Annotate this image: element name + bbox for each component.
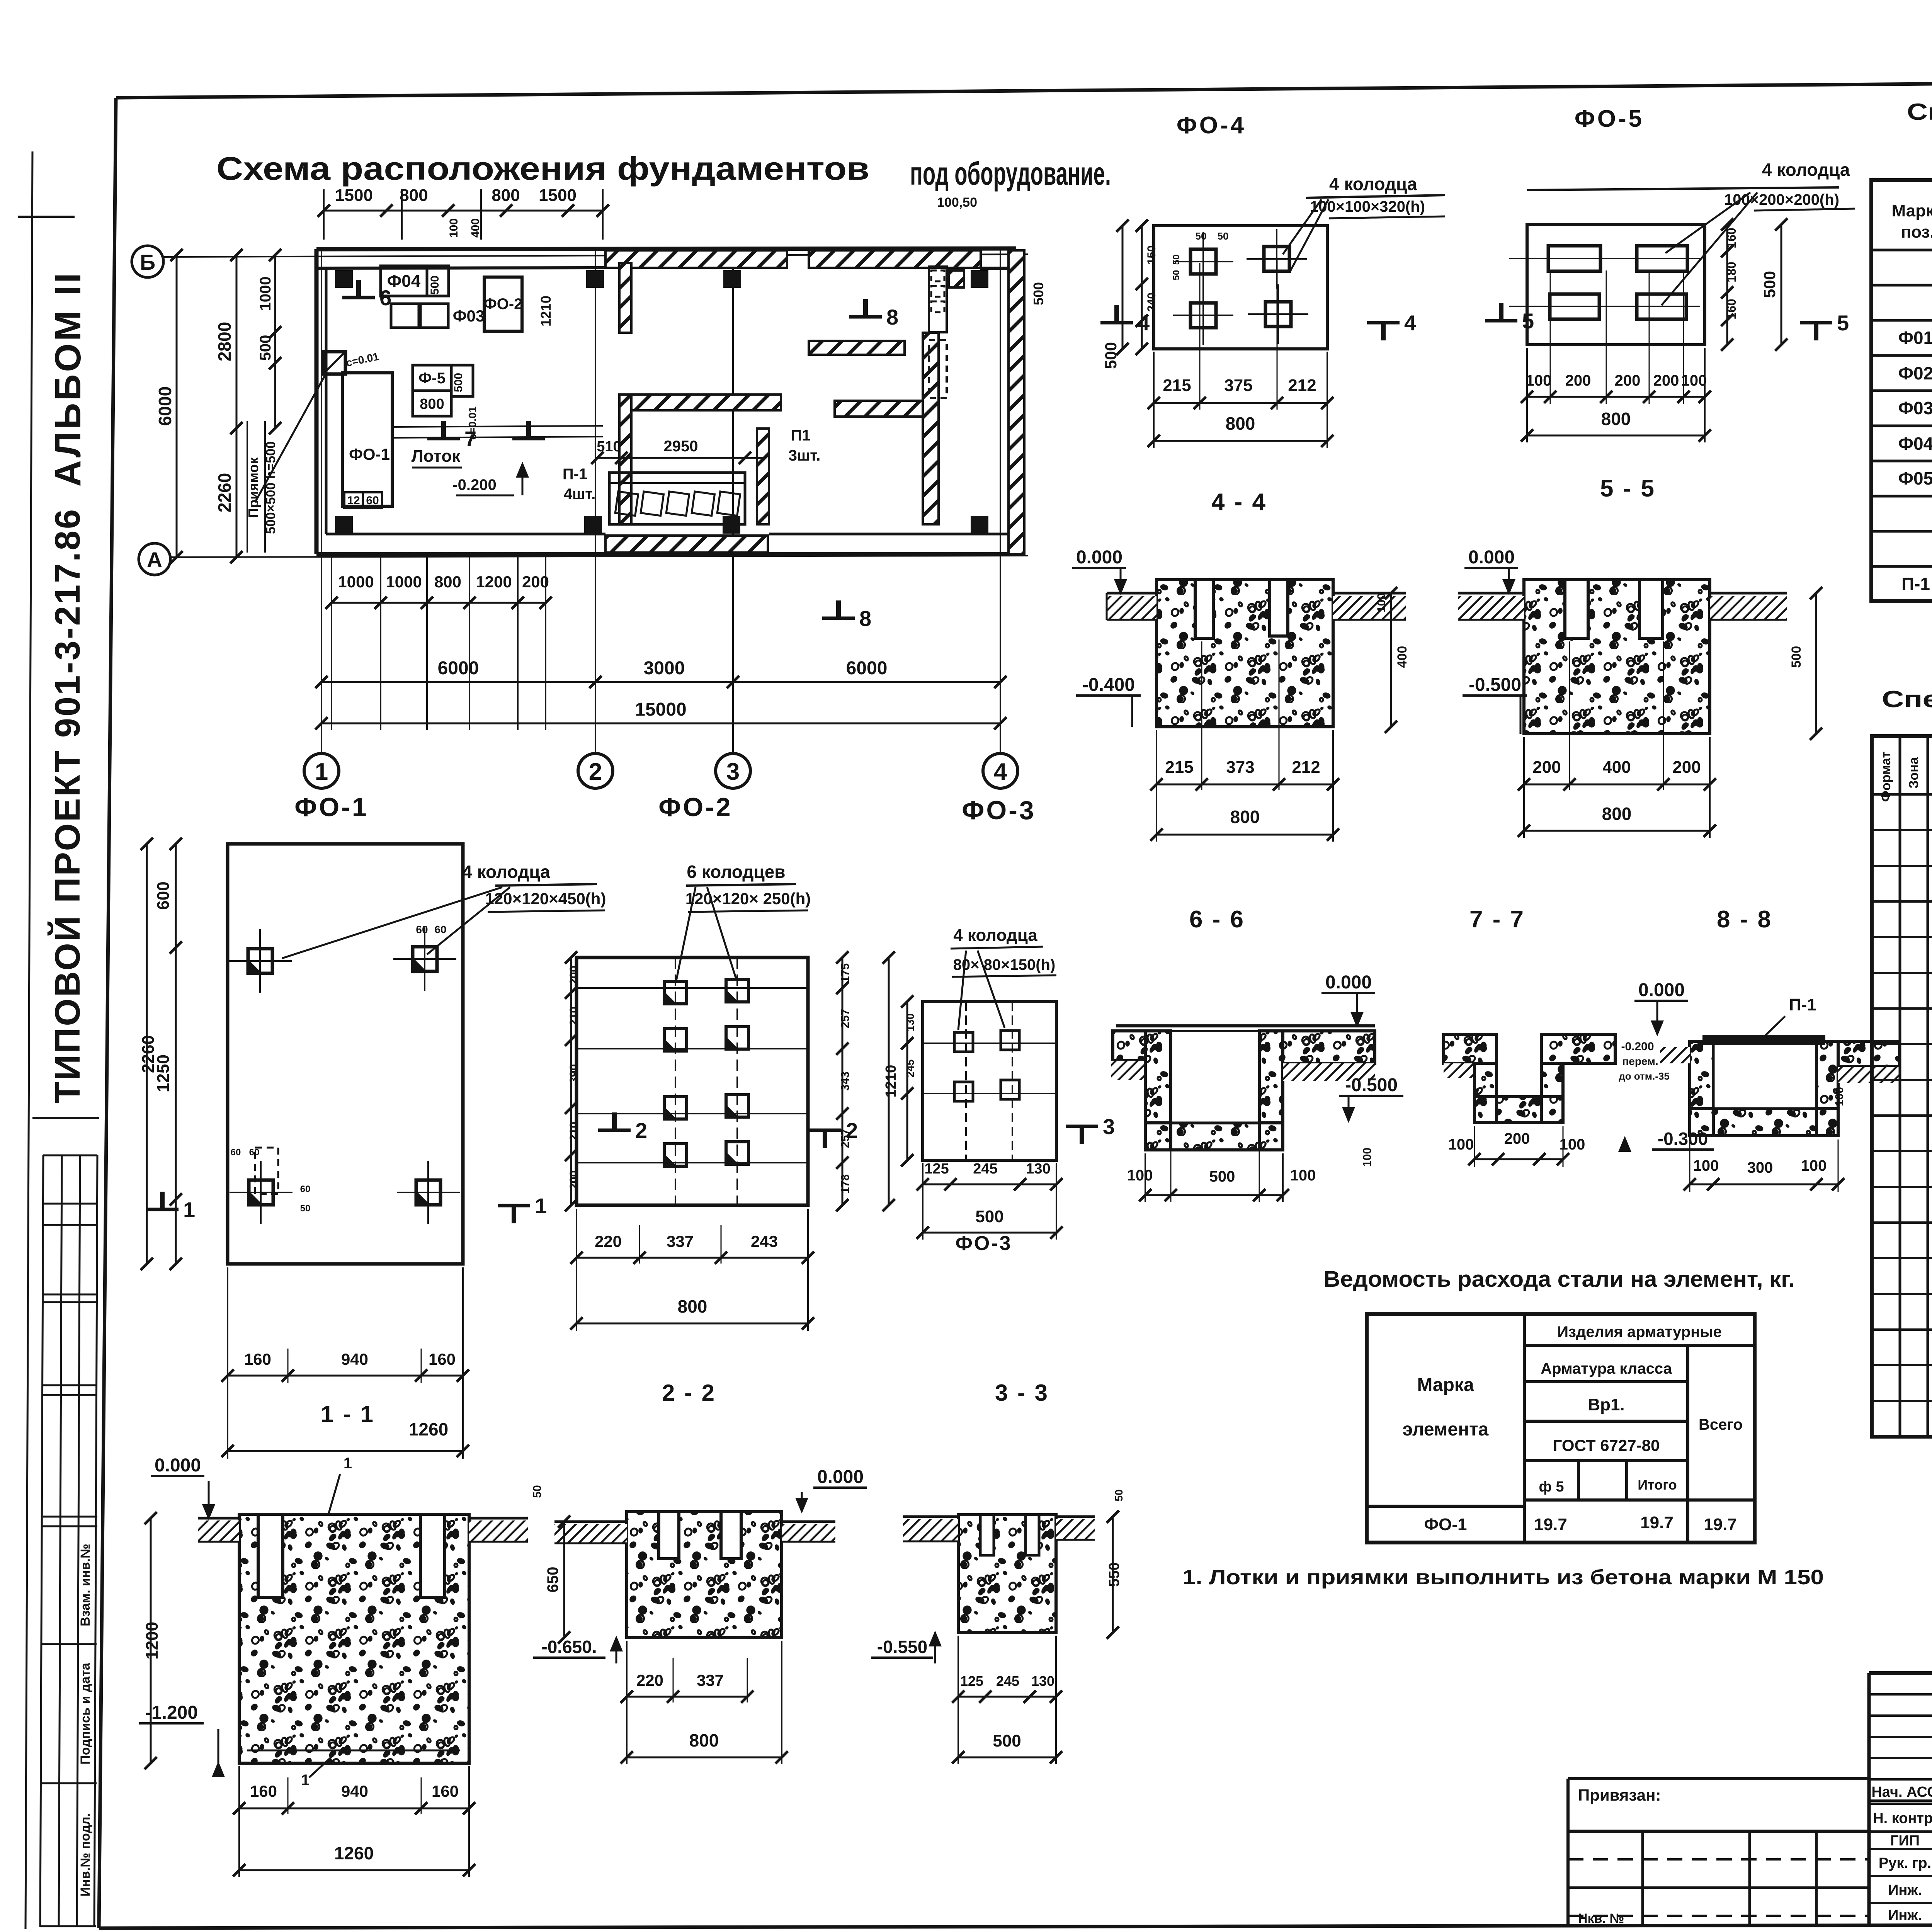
svg-text:ГОСТ 6727-80: ГОСТ 6727-80 xyxy=(1553,1436,1660,1454)
svg-text:Рук. гр.: Рук. гр. xyxy=(1879,1855,1931,1871)
svg-text:1500: 1500 xyxy=(539,186,577,205)
svg-text:1260: 1260 xyxy=(409,1419,448,1439)
svg-text:ТИПОВОЙ ПРОЕКТ 901-3-217.86: ТИПОВОЙ ПРОЕКТ 901-3-217.86 xyxy=(47,508,87,1104)
svg-text:4 колодца: 4 колодца xyxy=(1329,174,1417,194)
svg-text:1210: 1210 xyxy=(883,1065,899,1098)
svg-text:Ф01: Ф01 xyxy=(1898,328,1932,348)
svg-text:15000: 15000 xyxy=(635,699,686,720)
svg-text:220: 220 xyxy=(636,1671,663,1689)
svg-text:с=0.01: с=0.01 xyxy=(466,406,478,440)
svg-text:2: 2 xyxy=(635,1118,647,1143)
svg-text:ФО-5: ФО-5 xyxy=(1575,105,1644,132)
svg-text:Б: Б xyxy=(140,250,155,274)
svg-text:500: 500 xyxy=(1031,282,1046,305)
svg-text:-0.550: -0.550 xyxy=(877,1637,927,1657)
svg-text:4: 4 xyxy=(1404,311,1416,335)
svg-text:1250: 1250 xyxy=(154,1054,173,1092)
svg-text:2 - 2: 2 - 2 xyxy=(662,1380,716,1406)
svg-text:Спецификация элементов: Спецификация элементов монолитных констр… xyxy=(1882,686,1932,712)
svg-text:50: 50 xyxy=(1171,255,1182,265)
svg-text:1200: 1200 xyxy=(476,573,512,591)
svg-text:Марка: Марка xyxy=(1417,1375,1474,1395)
svg-text:ФО-1: ФО-1 xyxy=(294,793,368,822)
svg-text:Итого: Итого xyxy=(1638,1477,1677,1493)
svg-text:перем.: перем. xyxy=(1622,1055,1658,1067)
svg-text:50: 50 xyxy=(300,1203,311,1214)
svg-text:8 - 8: 8 - 8 xyxy=(1717,906,1772,933)
svg-text:2: 2 xyxy=(589,759,602,785)
svg-text:100: 100 xyxy=(1448,1136,1474,1153)
svg-text:6 колодцев: 6 колодцев xyxy=(687,862,785,882)
svg-text:ФО-4: ФО-4 xyxy=(1177,112,1246,139)
svg-text:3: 3 xyxy=(726,759,740,785)
svg-text:200: 200 xyxy=(568,966,580,985)
svg-text:1: 1 xyxy=(535,1194,547,1218)
svg-text:Ф04: Ф04 xyxy=(1898,434,1932,454)
svg-text:500: 500 xyxy=(1760,271,1779,298)
svg-text:4: 4 xyxy=(1138,311,1150,335)
svg-text:-0.200: -0.200 xyxy=(452,476,496,493)
svg-text:под оборудование.: под оборудование. xyxy=(910,155,1111,192)
svg-text:0.000: 0.000 xyxy=(817,1467,864,1487)
svg-text:245: 245 xyxy=(973,1161,997,1177)
svg-text:50: 50 xyxy=(1218,230,1229,242)
svg-text:Ф-5: Ф-5 xyxy=(418,370,446,387)
svg-text:Спецификация элементов к: Спецификация элементов к схеме расположе… xyxy=(1907,99,1932,125)
svg-text:Привязан:: Привязан: xyxy=(1578,1786,1661,1804)
svg-text:100: 100 xyxy=(1526,372,1552,389)
svg-text:343: 343 xyxy=(839,1071,852,1091)
svg-text:3 - 3: 3 - 3 xyxy=(995,1380,1049,1406)
svg-text:215: 215 xyxy=(1163,376,1191,395)
svg-text:100: 100 xyxy=(1833,1087,1846,1106)
svg-text:ФО-2: ФО-2 xyxy=(658,793,732,822)
svg-text:1260: 1260 xyxy=(334,1843,374,1863)
svg-text:6000: 6000 xyxy=(155,386,175,426)
svg-text:160: 160 xyxy=(432,1782,459,1800)
svg-text:0.000: 0.000 xyxy=(1638,980,1685,1000)
svg-text:500: 500 xyxy=(257,335,274,361)
svg-text:100: 100 xyxy=(1693,1157,1719,1174)
svg-text:19.7: 19.7 xyxy=(1534,1515,1567,1534)
svg-text:940: 940 xyxy=(341,1350,368,1368)
svg-text:2: 2 xyxy=(846,1118,858,1143)
svg-text:Ф03: Ф03 xyxy=(453,307,485,325)
svg-text:160: 160 xyxy=(429,1350,456,1368)
svg-text:ф 5: ф 5 xyxy=(1539,1479,1564,1495)
svg-text:550: 550 xyxy=(1106,1562,1122,1587)
svg-text:Лоток: Лоток xyxy=(412,447,461,466)
svg-text:500: 500 xyxy=(993,1731,1021,1750)
svg-text:Инв.№ подл.: Инв.№ подл. xyxy=(78,1813,93,1896)
svg-text:500: 500 xyxy=(1789,646,1804,668)
svg-text:200: 200 xyxy=(1653,372,1679,389)
svg-text:6000: 6000 xyxy=(438,658,479,679)
svg-text:А: А xyxy=(147,548,162,572)
svg-text:-0.200: -0.200 xyxy=(1621,1040,1654,1053)
svg-text:ФО-1: ФО-1 xyxy=(349,445,390,463)
svg-text:50: 50 xyxy=(1113,1489,1125,1501)
svg-text:800: 800 xyxy=(689,1730,719,1750)
svg-text:элемента: элемента xyxy=(1403,1419,1489,1440)
svg-text:6 - 6: 6 - 6 xyxy=(1189,906,1245,933)
svg-text:12: 12 xyxy=(347,494,360,507)
svg-text:Зона: Зона xyxy=(1906,757,1921,789)
svg-text:Нач. АСО: Нач. АСО xyxy=(1871,1784,1932,1800)
svg-text:1000: 1000 xyxy=(386,573,422,591)
svg-text:Взам. инв.№: Взам. инв.№ xyxy=(78,1544,93,1626)
svg-text:337: 337 xyxy=(667,1232,694,1250)
svg-text:120×120× 250(h): 120×120× 250(h) xyxy=(685,889,811,908)
svg-text:100,50: 100,50 xyxy=(937,195,977,210)
svg-text:220: 220 xyxy=(595,1232,622,1250)
svg-text:Инж.: Инж. xyxy=(1888,1907,1922,1923)
svg-text:6: 6 xyxy=(379,286,391,310)
svg-text:Ведомость расхода стали н: Ведомость расхода стали на элемент, кг. xyxy=(1323,1267,1795,1292)
svg-text:200: 200 xyxy=(1672,758,1701,777)
svg-text:Ф05: Ф05 xyxy=(1898,468,1932,488)
svg-text:2800: 2800 xyxy=(214,322,235,361)
svg-text:400: 400 xyxy=(469,218,482,238)
svg-text:1. Лотки и приямки вып: 1. Лотки и приямки выполнить из бетона м… xyxy=(1182,1566,1824,1589)
svg-text:60: 60 xyxy=(231,1147,241,1158)
svg-text:800: 800 xyxy=(434,573,461,591)
svg-text:940: 940 xyxy=(341,1782,368,1800)
svg-text:300: 300 xyxy=(1747,1159,1773,1176)
svg-text:Изделия арматурные: Изделия арматурные xyxy=(1557,1323,1722,1340)
svg-text:175: 175 xyxy=(839,963,852,983)
svg-text:Вр1.: Вр1. xyxy=(1588,1395,1624,1414)
svg-text:100: 100 xyxy=(1290,1167,1316,1184)
svg-text:60: 60 xyxy=(434,923,446,935)
svg-text:4 колодца: 4 колодца xyxy=(953,926,1037,945)
svg-text:ФО-3: ФО-3 xyxy=(955,1232,1012,1255)
svg-text:7 - 7: 7 - 7 xyxy=(1469,906,1525,933)
svg-text:до отм.-35: до отм.-35 xyxy=(1619,1070,1670,1082)
svg-text:800: 800 xyxy=(492,186,520,205)
svg-text:50: 50 xyxy=(1196,230,1207,242)
svg-text:4: 4 xyxy=(994,759,1007,785)
svg-text:800: 800 xyxy=(1226,413,1255,434)
svg-text:Ф04: Ф04 xyxy=(387,272,421,291)
svg-text:5: 5 xyxy=(1522,309,1534,333)
svg-text:500: 500 xyxy=(452,373,465,392)
svg-text:125: 125 xyxy=(960,1673,983,1689)
svg-text:0.000: 0.000 xyxy=(1076,547,1122,568)
svg-text:Подпись и дата: Подпись и дата xyxy=(78,1662,93,1765)
svg-text:210: 210 xyxy=(568,1007,580,1026)
svg-text:0.000: 0.000 xyxy=(1468,547,1515,568)
svg-text:650: 650 xyxy=(544,1567,561,1593)
svg-text:60: 60 xyxy=(416,923,428,935)
svg-text:130: 130 xyxy=(1031,1673,1054,1689)
svg-text:1200: 1200 xyxy=(143,1622,162,1660)
svg-text:800: 800 xyxy=(420,396,444,412)
svg-text:257: 257 xyxy=(839,1009,852,1028)
svg-text:3шт.: 3шт. xyxy=(789,447,821,464)
svg-text:Всего: Всего xyxy=(1699,1416,1743,1433)
svg-text:500: 500 xyxy=(975,1207,1003,1226)
svg-text:200: 200 xyxy=(568,1170,580,1190)
svg-text:П-1: П-1 xyxy=(1789,995,1816,1014)
svg-text:П1: П1 xyxy=(791,427,811,444)
svg-text:Инж.: Инж. xyxy=(1888,1882,1922,1898)
svg-text:400: 400 xyxy=(1602,758,1631,777)
svg-text:212: 212 xyxy=(1288,376,1316,395)
svg-text:П-1: П-1 xyxy=(1901,574,1930,594)
svg-text:3: 3 xyxy=(1103,1114,1115,1139)
svg-text:337: 337 xyxy=(697,1671,724,1689)
svg-text:160: 160 xyxy=(1725,299,1738,319)
svg-text:100: 100 xyxy=(1681,372,1707,389)
svg-text:215: 215 xyxy=(1165,758,1193,777)
svg-text:800: 800 xyxy=(678,1296,707,1316)
svg-text:200: 200 xyxy=(1615,372,1641,389)
svg-text:510: 510 xyxy=(597,439,621,455)
svg-text:100: 100 xyxy=(1127,1167,1153,1184)
svg-text:Схема расположения фундамент: Схема расположения фундаментов xyxy=(216,150,869,187)
svg-text:ФО-3: ФО-3 xyxy=(962,796,1036,825)
svg-text:160: 160 xyxy=(1725,228,1738,248)
svg-text:375: 375 xyxy=(1224,376,1252,395)
svg-text:50: 50 xyxy=(531,1485,544,1498)
svg-text:210: 210 xyxy=(568,1122,580,1141)
svg-text:1500: 1500 xyxy=(335,186,373,205)
svg-text:800: 800 xyxy=(1601,409,1631,429)
svg-text:4 - 4: 4 - 4 xyxy=(1211,489,1267,515)
svg-text:-0.300: -0.300 xyxy=(1658,1129,1708,1149)
svg-text:Ф03: Ф03 xyxy=(1898,398,1932,418)
svg-text:1210: 1210 xyxy=(538,296,554,327)
svg-text:0.000: 0.000 xyxy=(1325,972,1372,993)
svg-text:Ф02: Ф02 xyxy=(1898,363,1932,383)
svg-text:П-1: П-1 xyxy=(563,466,587,483)
svg-text:4шт.: 4шт. xyxy=(564,486,596,503)
svg-text:4 колодца: 4 колодца xyxy=(1762,160,1850,180)
svg-text:180: 180 xyxy=(1725,262,1738,282)
svg-text:Нкв. №: Нкв. № xyxy=(1578,1911,1624,1926)
svg-text:60: 60 xyxy=(366,494,379,507)
svg-text:243: 243 xyxy=(751,1232,778,1250)
svg-text:80× 80×150(h): 80× 80×150(h) xyxy=(953,956,1056,973)
svg-text:1000: 1000 xyxy=(257,277,274,311)
svg-text:130: 130 xyxy=(1026,1161,1050,1177)
svg-text:150: 150 xyxy=(1145,245,1158,265)
svg-text:100: 100 xyxy=(1361,1148,1374,1167)
svg-text:1: 1 xyxy=(183,1197,195,1222)
svg-text:-0.500: -0.500 xyxy=(1469,675,1521,695)
svg-text:1000: 1000 xyxy=(338,573,374,591)
svg-text:ФО-2: ФО-2 xyxy=(484,296,523,313)
svg-text:ФО-1: ФО-1 xyxy=(1424,1515,1467,1534)
svg-text:500: 500 xyxy=(1102,342,1120,369)
svg-text:200: 200 xyxy=(1565,372,1591,389)
svg-text:Арматура класса: Арматура класса xyxy=(1541,1360,1672,1377)
svg-text:1: 1 xyxy=(315,759,328,785)
svg-text:1: 1 xyxy=(301,1772,310,1789)
svg-text:390: 390 xyxy=(568,1064,580,1083)
svg-text:160: 160 xyxy=(244,1350,271,1368)
svg-text:2950: 2950 xyxy=(664,438,698,455)
svg-text:19.7: 19.7 xyxy=(1640,1513,1673,1532)
svg-text:-0.500: -0.500 xyxy=(1345,1075,1398,1095)
svg-text:800: 800 xyxy=(400,186,428,205)
svg-text:100: 100 xyxy=(447,218,460,238)
svg-text:373: 373 xyxy=(1226,758,1254,777)
svg-text:500: 500 xyxy=(1209,1168,1235,1185)
svg-text:8: 8 xyxy=(886,305,898,329)
svg-text:600: 600 xyxy=(154,881,173,910)
svg-text:800: 800 xyxy=(1230,807,1260,827)
svg-text:130: 130 xyxy=(904,1014,916,1032)
svg-text:400: 400 xyxy=(1395,646,1410,668)
svg-text:19.7: 19.7 xyxy=(1704,1515,1737,1534)
svg-text:-0.400: -0.400 xyxy=(1082,675,1135,695)
svg-text:212: 212 xyxy=(1292,758,1320,777)
svg-text:245: 245 xyxy=(904,1060,916,1078)
svg-text:8: 8 xyxy=(859,606,871,631)
svg-text:4 колодца: 4 колодца xyxy=(462,862,550,882)
svg-text:5 - 5: 5 - 5 xyxy=(1600,475,1656,502)
svg-text:178: 178 xyxy=(839,1174,852,1194)
svg-text:2260: 2260 xyxy=(214,473,235,512)
svg-text:100: 100 xyxy=(1375,593,1388,612)
svg-text:1: 1 xyxy=(344,1455,352,1472)
svg-text:240: 240 xyxy=(1145,293,1158,312)
svg-text:Марка: Марка xyxy=(1891,201,1932,220)
svg-text:-1.200: -1.200 xyxy=(145,1702,198,1723)
svg-text:АЛЬБОМ II: АЛЬБОМ II xyxy=(48,270,88,486)
svg-text:125: 125 xyxy=(924,1161,949,1177)
svg-text:5: 5 xyxy=(1837,311,1849,335)
svg-text:3000: 3000 xyxy=(644,658,685,679)
svg-text:поз.: поз. xyxy=(1901,223,1932,241)
svg-text:Н. контр.: Н. контр. xyxy=(1873,1810,1932,1827)
svg-text:200: 200 xyxy=(1532,758,1561,777)
svg-text:60: 60 xyxy=(300,1184,311,1194)
svg-text:800: 800 xyxy=(1602,804,1632,824)
svg-text:50: 50 xyxy=(1171,270,1182,281)
svg-text:ГИП: ГИП xyxy=(1890,1833,1920,1849)
svg-text:245: 245 xyxy=(996,1673,1019,1689)
svg-text:1 - 1: 1 - 1 xyxy=(321,1401,375,1427)
svg-text:100: 100 xyxy=(1801,1157,1827,1174)
svg-text:200: 200 xyxy=(1504,1130,1530,1147)
svg-text:-0.650.: -0.650. xyxy=(541,1637,597,1657)
svg-text:160: 160 xyxy=(250,1782,277,1800)
svg-text:500: 500 xyxy=(429,276,441,295)
svg-text:6000: 6000 xyxy=(846,658,888,679)
svg-text:0.000: 0.000 xyxy=(155,1455,201,1476)
